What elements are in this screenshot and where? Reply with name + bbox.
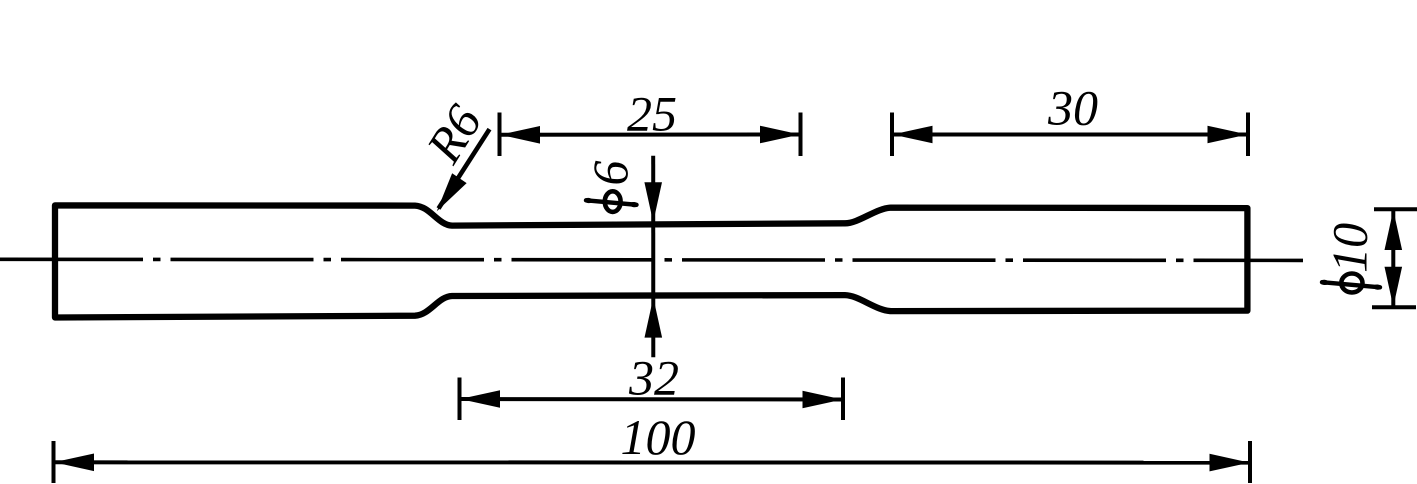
dim 100 arrow left <box>54 454 94 472</box>
dim 32 arrow right <box>803 391 843 409</box>
dim 32 arrow left <box>460 390 500 408</box>
svg-text:25: 25 <box>627 86 677 142</box>
dim 32 extension tick left <box>458 378 462 421</box>
dim 100 line <box>54 460 1251 464</box>
dim 32 line <box>460 397 844 402</box>
dim phi6 arrow up <box>645 298 663 338</box>
dim 30 arrow left <box>893 126 933 144</box>
dim 32 extension tick right <box>841 378 845 421</box>
dim phi10 arrow up <box>1385 210 1403 250</box>
dim 100 extension tick left <box>52 441 56 483</box>
dim 25 line <box>500 133 801 137</box>
svg-text:R6: R6 <box>415 95 492 173</box>
dim 25 extension tick right <box>799 113 803 157</box>
dim 25 arrow left <box>500 126 540 144</box>
dim phi6 line <box>651 156 655 357</box>
dim phi6 label <box>582 161 639 212</box>
R6 leader line <box>439 129 490 208</box>
dim phi10 extension line bottom <box>1372 305 1416 309</box>
dim phi10 label <box>1320 223 1382 293</box>
dim 30 extension tick left <box>890 113 894 157</box>
dim 25 extension tick left <box>498 113 502 157</box>
dim phi6 arrow down <box>644 182 662 222</box>
dim 25 arrow right <box>760 126 800 144</box>
R6 leader arrow <box>430 173 467 216</box>
dim phi10 arrow down <box>1385 267 1403 307</box>
dim 30 extension tick right <box>1246 113 1250 157</box>
dim phi10 extension line top <box>1374 207 1417 211</box>
svg-text:30: 30 <box>1047 80 1098 136</box>
R6 label <box>415 95 492 173</box>
dim phi10 line <box>1391 209 1395 307</box>
svg-text:10: 10 <box>1322 223 1378 273</box>
dim 100 arrow right <box>1210 454 1250 472</box>
dim 100 extension tick right <box>1248 441 1252 483</box>
svg-text:32: 32 <box>628 349 679 405</box>
specimen outline <box>55 205 1247 317</box>
dim 30 line <box>892 133 1248 137</box>
svg-text:100: 100 <box>621 409 696 465</box>
svg-text:6: 6 <box>582 161 638 186</box>
dim 30 arrow right <box>1208 126 1248 144</box>
centerline <box>0 259 1303 260</box>
